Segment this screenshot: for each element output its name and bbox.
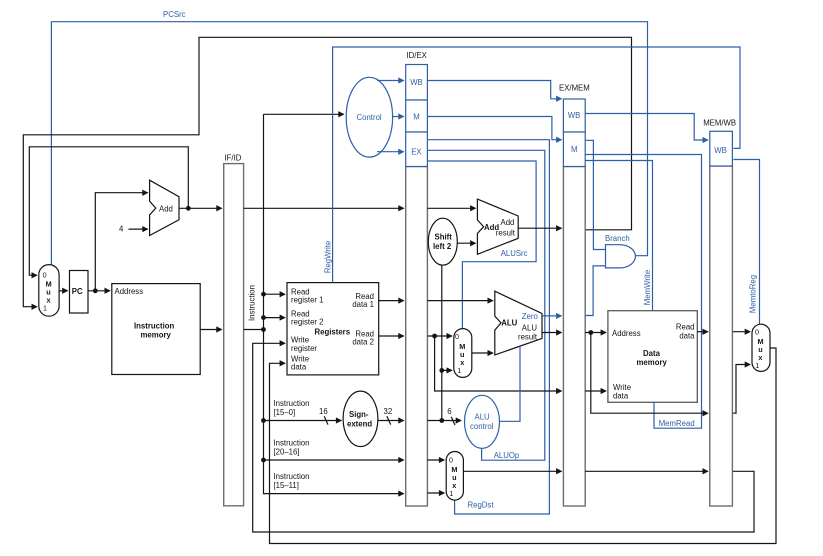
wire mux to PC <box>59 290 67 292</box>
node PCSrc label <box>163 10 186 19</box>
node ALUSrc label <box>501 249 528 258</box>
node constant 4 <box>119 224 124 233</box>
wire RegDst select from ID/EX EX <box>427 140 549 514</box>
svg-text:memory: memory <box>141 331 172 340</box>
alu ALU <box>495 291 542 355</box>
svg-text:Registers: Registers <box>315 327 351 336</box>
node label 16 <box>319 407 328 416</box>
mux RegDst <box>446 452 463 501</box>
node RegDst label <box>468 500 495 509</box>
wire Control to ID/EX WB <box>377 80 404 82</box>
wire branch Add result to EX/MEM <box>518 227 561 229</box>
svg-text:MemWrite: MemWrite <box>643 270 652 305</box>
svg-text:IF/ID: IF/ID <box>225 154 242 163</box>
wire Read data 2 from ID/EX to ALU mux and EX/MEM write data <box>427 334 561 391</box>
wire MemWrite to data memory top <box>585 161 652 311</box>
wire PCSrc from branch AND gate to PC mux select <box>51 22 647 265</box>
svg-text:[15–0]: [15–0] <box>274 408 296 417</box>
wire immediate from ID/EX to ALU control, shift left 2, ALU mux <box>427 265 461 425</box>
node Zero label <box>522 312 539 321</box>
wire ID/EX WB to EX/MEM WB <box>427 81 561 99</box>
svg-text:Sign-: Sign- <box>349 410 369 419</box>
mux MemtoReg final <box>752 324 770 371</box>
wire ALU result from MEM/WB to final mux input 1 <box>733 365 750 414</box>
svg-text:data 2: data 2 <box>352 338 374 347</box>
register ID/EX <box>406 51 428 506</box>
wire Read data 2 to ID/EX <box>379 335 404 337</box>
node label 6 <box>447 407 451 416</box>
svg-text:M: M <box>413 113 420 122</box>
svg-text:Instruction: Instruction <box>134 321 175 330</box>
svg-text:[15–11]: [15–11] <box>274 481 299 490</box>
svg-text:1: 1 <box>755 362 759 370</box>
wire ALUSrc mux to ALU <box>472 352 493 354</box>
wire ALU result from EX/MEM to data memory address and MEM/WB <box>585 330 708 413</box>
node MemRead label <box>659 419 695 428</box>
svg-text:EX/MEM: EX/MEM <box>559 84 590 93</box>
wire ALU control to ALU <box>500 346 521 421</box>
svg-text:RegDst: RegDst <box>468 500 495 509</box>
svg-text:PCSrc: PCSrc <box>163 10 186 19</box>
wire Branch signal to AND gate <box>585 140 605 249</box>
memory Data memory <box>608 311 697 403</box>
svg-text:data: data <box>679 331 695 340</box>
svg-text:MemtoReg: MemtoReg <box>749 275 758 313</box>
svg-text:[20–16]: [20–16] <box>274 448 300 457</box>
wire instr 20-16 from ID/EX to RegDst mux input 0 <box>427 459 444 461</box>
svg-text:x: x <box>460 358 464 367</box>
wire ALUOp from ID/EX EX to ALU control <box>427 150 544 460</box>
wire register number from EX/MEM to MEM/WB <box>585 470 708 472</box>
wire write register number from MEM/WB to Registers <box>253 343 754 532</box>
node label Instruction 15-0 <box>274 399 310 417</box>
svg-text:MemRead: MemRead <box>659 419 695 428</box>
node label Instruction 20-16 <box>274 439 310 457</box>
node label 32 <box>384 407 393 416</box>
wire ALU result to EX/MEM <box>542 332 561 334</box>
node RegWrite label <box>323 241 332 273</box>
svg-text:WB: WB <box>568 111 581 120</box>
wire PC+4 from ID/EX to branch Add <box>427 207 475 209</box>
svg-text:x: x <box>758 353 762 362</box>
svg-text:Instruction: Instruction <box>274 472 310 481</box>
svg-text:Shift: Shift <box>435 233 453 242</box>
svg-text:x: x <box>47 296 51 305</box>
svg-text:Read: Read <box>676 322 695 331</box>
gate AND branch <box>606 245 636 268</box>
oval Control <box>346 77 392 157</box>
svg-text:ALU: ALU <box>475 413 491 422</box>
wire Read data 1 from ID/EX to ALU <box>427 300 492 302</box>
node ALUOp label <box>494 451 520 460</box>
wire instruction bus from IF/ID <box>244 114 404 493</box>
svg-text:result: result <box>518 332 538 341</box>
svg-text:Instruction: Instruction <box>274 399 310 408</box>
adder Add (PC+4) <box>150 180 179 235</box>
svg-text:ALUSrc: ALUSrc <box>501 249 528 258</box>
svg-text:WB: WB <box>410 78 423 87</box>
registers Registers block <box>287 283 379 375</box>
svg-text:0: 0 <box>449 456 453 464</box>
svg-text:0: 0 <box>755 329 759 337</box>
wire sign extend to ID/EX <box>378 416 404 424</box>
svg-text:register: register <box>291 344 317 353</box>
wire branch target from EX/MEM back to PC mux input 1 <box>23 37 631 306</box>
node MemtoReg label <box>749 275 758 313</box>
wire PC to instruction memory <box>88 288 110 293</box>
svg-text:Control: Control <box>357 113 382 122</box>
oval Shift left 2 <box>428 218 457 265</box>
wire ALUSrc from ID/EX EX to ALU mux <box>427 161 536 329</box>
wire Zero from ALU to EX/MEM <box>542 315 561 317</box>
svg-text:Instruction: Instruction <box>248 285 257 321</box>
wire PC+4 from IF/ID to ID/EX <box>244 207 404 209</box>
svg-text:data: data <box>291 363 307 372</box>
wire instr 15-11 from ID/EX to RegDst mux input 1 <box>427 492 444 494</box>
svg-text:left 2: left 2 <box>433 242 452 251</box>
mux PC source <box>39 265 59 317</box>
wire Add result to IF/ID <box>179 206 222 211</box>
wire PC value up to Add <box>95 193 147 291</box>
svg-text:4: 4 <box>119 224 124 233</box>
wire instruction 15-0 to sign extend <box>264 416 342 424</box>
wire Read data 1 to ID/EX <box>379 300 404 302</box>
svg-text:1: 1 <box>449 490 453 498</box>
svg-text:Data: Data <box>643 349 661 358</box>
svg-text:ALU: ALU <box>501 319 517 328</box>
node Instruction label <box>248 285 257 321</box>
svg-text:6: 6 <box>447 407 451 416</box>
wire read data to MEM/WB <box>697 331 708 333</box>
wire instruction 20-16 to ID/EX <box>264 459 404 461</box>
svg-text:Write: Write <box>613 383 631 392</box>
wire EX/MEM WB to MEM/WB WB <box>585 114 708 141</box>
wire shift left 2 to branch Add <box>457 242 475 244</box>
oval Sign-extend <box>343 391 378 446</box>
wire write-back data from final mux to Registers write data <box>270 348 777 544</box>
svg-text:register 1: register 1 <box>291 295 324 304</box>
wire instruction memory to IF/ID <box>200 329 221 331</box>
svg-text:result: result <box>496 228 516 237</box>
wire 4 into Add <box>129 228 148 230</box>
svg-text:PC: PC <box>72 287 83 296</box>
wire instruction to Control <box>264 113 344 115</box>
svg-text:1: 1 <box>43 305 47 313</box>
node label Instruction 15-11 <box>274 472 310 490</box>
memory Instruction memory <box>112 284 200 375</box>
svg-text:control: control <box>470 422 494 431</box>
svg-text:RegWrite: RegWrite <box>323 241 332 273</box>
svg-text:register 2: register 2 <box>291 317 324 326</box>
svg-text:0: 0 <box>455 333 459 341</box>
register MEM/WB <box>703 118 736 506</box>
wire PC+4 loop back to PC mux input 0 <box>29 147 188 275</box>
svg-text:WB: WB <box>714 146 727 155</box>
wire Control to ID/EX EX <box>377 151 404 153</box>
wire MemRead to data memory bottom <box>585 155 701 429</box>
svg-text:data 1: data 1 <box>352 300 374 309</box>
wire Control to ID/EX M <box>393 116 404 118</box>
wire instruction to Read register 1 <box>264 293 285 295</box>
svg-text:32: 32 <box>384 407 393 416</box>
svg-text:x: x <box>452 481 456 490</box>
wire RegDst mux to EX/MEM <box>463 470 561 472</box>
wire Zero from EX/MEM to AND gate <box>585 266 605 316</box>
svg-text:MEM/WB: MEM/WB <box>703 118 736 127</box>
node Branch label <box>605 234 630 243</box>
wire ID/EX M to EX/MEM M <box>427 117 561 140</box>
svg-text:Add: Add <box>501 218 515 227</box>
svg-text:Instruction: Instruction <box>274 439 310 448</box>
wire RegWrite from MEM/WB WB to Registers <box>333 47 740 283</box>
svg-text:M: M <box>571 145 578 154</box>
adder branch Add <box>477 199 518 254</box>
svg-text:0: 0 <box>43 271 47 279</box>
svg-text:data: data <box>613 392 629 401</box>
node MemWrite label <box>643 270 652 305</box>
svg-text:16: 16 <box>319 407 328 416</box>
svg-text:1: 1 <box>457 367 461 375</box>
svg-text:Add: Add <box>159 205 173 214</box>
svg-text:ALU: ALU <box>522 323 538 332</box>
svg-text:ALUOp: ALUOp <box>494 451 520 460</box>
wire read data from MEM/WB to final mux input 0 <box>733 331 750 333</box>
svg-text:ID/EX: ID/EX <box>407 51 428 60</box>
svg-text:memory: memory <box>637 358 668 367</box>
svg-text:EX: EX <box>411 148 422 157</box>
svg-text:Address: Address <box>612 329 641 338</box>
svg-text:Address: Address <box>115 287 144 296</box>
oval ALU control <box>465 395 500 448</box>
mux ALUSrc <box>454 329 472 378</box>
svg-text:Zero: Zero <box>522 312 539 321</box>
wire instruction to Read register 2 <box>264 317 285 319</box>
svg-text:extend: extend <box>347 420 372 429</box>
register EX/MEM <box>559 84 590 507</box>
register IF/ID <box>224 154 244 506</box>
wire MemtoReg from MEM/WB WB to final mux <box>733 160 759 325</box>
svg-text:Branch: Branch <box>605 234 630 243</box>
register PC <box>70 271 89 314</box>
wire write data from EX/MEM to data memory <box>585 390 606 392</box>
